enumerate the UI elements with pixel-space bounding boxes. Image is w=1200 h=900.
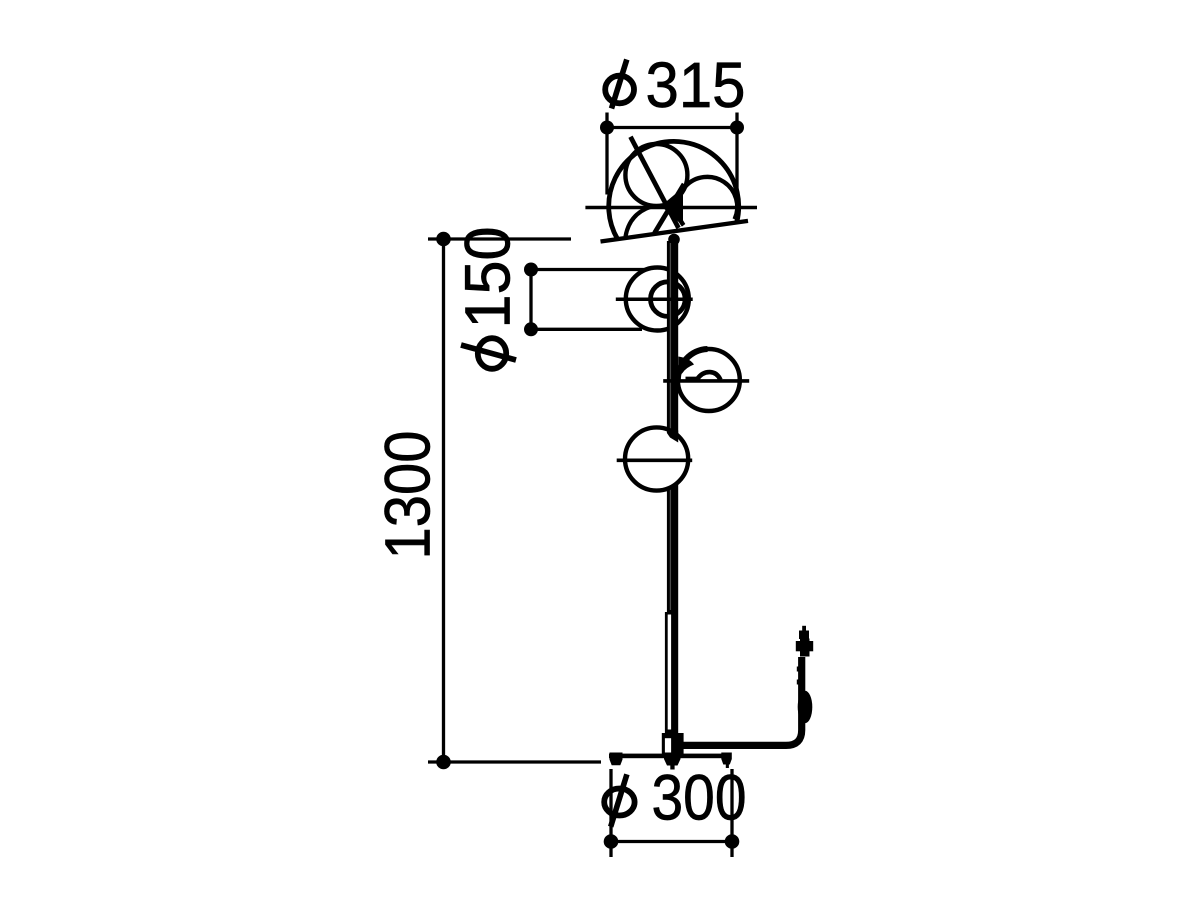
- shade rim tilted line: [601, 221, 749, 242]
- power cord: [684, 657, 802, 745]
- dimension line φ315: [607, 126, 737, 129]
- plug tip: [802, 626, 806, 631]
- dimension φ150 vertical connector: [529, 270, 532, 330]
- base foot right tick: [726, 765, 729, 769]
- middle sphere joint blob: [678, 357, 694, 375]
- dimension line φ300: [611, 840, 732, 843]
- middle sphere inner line: [686, 377, 699, 380]
- plug cap: [799, 631, 809, 640]
- right bulb arc in shade: [677, 177, 737, 225]
- dimension text 1300 rotated: [372, 431, 444, 560]
- base plate line: [609, 754, 730, 759]
- pole upper seam line: [669, 243, 671, 610]
- extension line left φ315: [605, 113, 608, 195]
- pole lower section: [665, 612, 678, 734]
- dimension dot left φ315: [600, 121, 614, 135]
- dimension dot top φ150: [524, 263, 538, 277]
- plug left wing: [796, 641, 800, 651]
- shade equator horizontal line: [585, 206, 757, 210]
- svg-text:1300: 1300: [372, 431, 444, 560]
- svg-text:315: 315: [646, 49, 746, 121]
- middle sphere equator line: [663, 379, 749, 383]
- top sphere circle: [626, 268, 689, 331]
- svg-text:150: 150: [452, 227, 524, 329]
- extension line right φ315: [735, 113, 738, 197]
- dimension φ150 top line: [531, 268, 645, 271]
- dimension dot bottom φ150: [524, 322, 538, 336]
- dimension dot top 1300: [436, 232, 451, 247]
- shade inner arc lower-left: [626, 207, 652, 237]
- plug core: [800, 639, 810, 657]
- dimension text φ300: phi symbol: [604, 774, 634, 826]
- shade stem diagonal: [631, 137, 679, 228]
- extension line right φ300: [730, 769, 733, 857]
- dimension φ150 bottom line: [531, 328, 642, 331]
- shade socket filled triangle: [661, 188, 683, 227]
- middle sphere inner hump: [697, 372, 721, 380]
- dimension dot right φ300: [725, 834, 740, 849]
- top sphere equator line: [616, 297, 693, 301]
- plug right wing: [809, 641, 813, 651]
- left bulb circle in shade: [625, 144, 687, 206]
- middle sphere thick upper-left arc: [678, 349, 708, 381]
- cord nub upper: [797, 667, 799, 672]
- dimension 1300 vertical line: [442, 239, 445, 762]
- bottom sphere equator line: [617, 458, 693, 462]
- base hub block: [662, 733, 684, 757]
- base foot right: [721, 753, 732, 765]
- bottom sphere circle: [625, 427, 688, 490]
- base foot center: [664, 753, 681, 766]
- extension line bottom 1300: [428, 760, 601, 763]
- ball joint below shade: [668, 234, 680, 246]
- pole upper section: [667, 241, 678, 612]
- lamp shade big circle arc: [609, 141, 739, 239]
- base foot center tick: [670, 765, 674, 770]
- pole lower white core: [668, 615, 671, 730]
- cord nub lower: [797, 680, 799, 685]
- shade second diagonal: [655, 184, 685, 233]
- base foot left: [610, 753, 623, 766]
- extension line top 1300: [428, 237, 571, 240]
- dimension dot bottom 1300: [436, 755, 451, 770]
- top sphere inner circle: [651, 282, 686, 317]
- bottom sphere joint blob: [667, 429, 678, 443]
- svg-text:300: 300: [652, 762, 747, 834]
- inline switch on cord: [798, 691, 813, 724]
- dimension text φ150 rotated: [452, 227, 524, 369]
- dimension text φ315: phi symbol: [605, 60, 634, 109]
- base hub white notch: [665, 738, 671, 753]
- middle sphere circle: [678, 349, 740, 411]
- dimension dot left φ300: [604, 834, 619, 849]
- dimension dot right φ315: [730, 121, 744, 135]
- extension line left φ300: [609, 769, 612, 857]
